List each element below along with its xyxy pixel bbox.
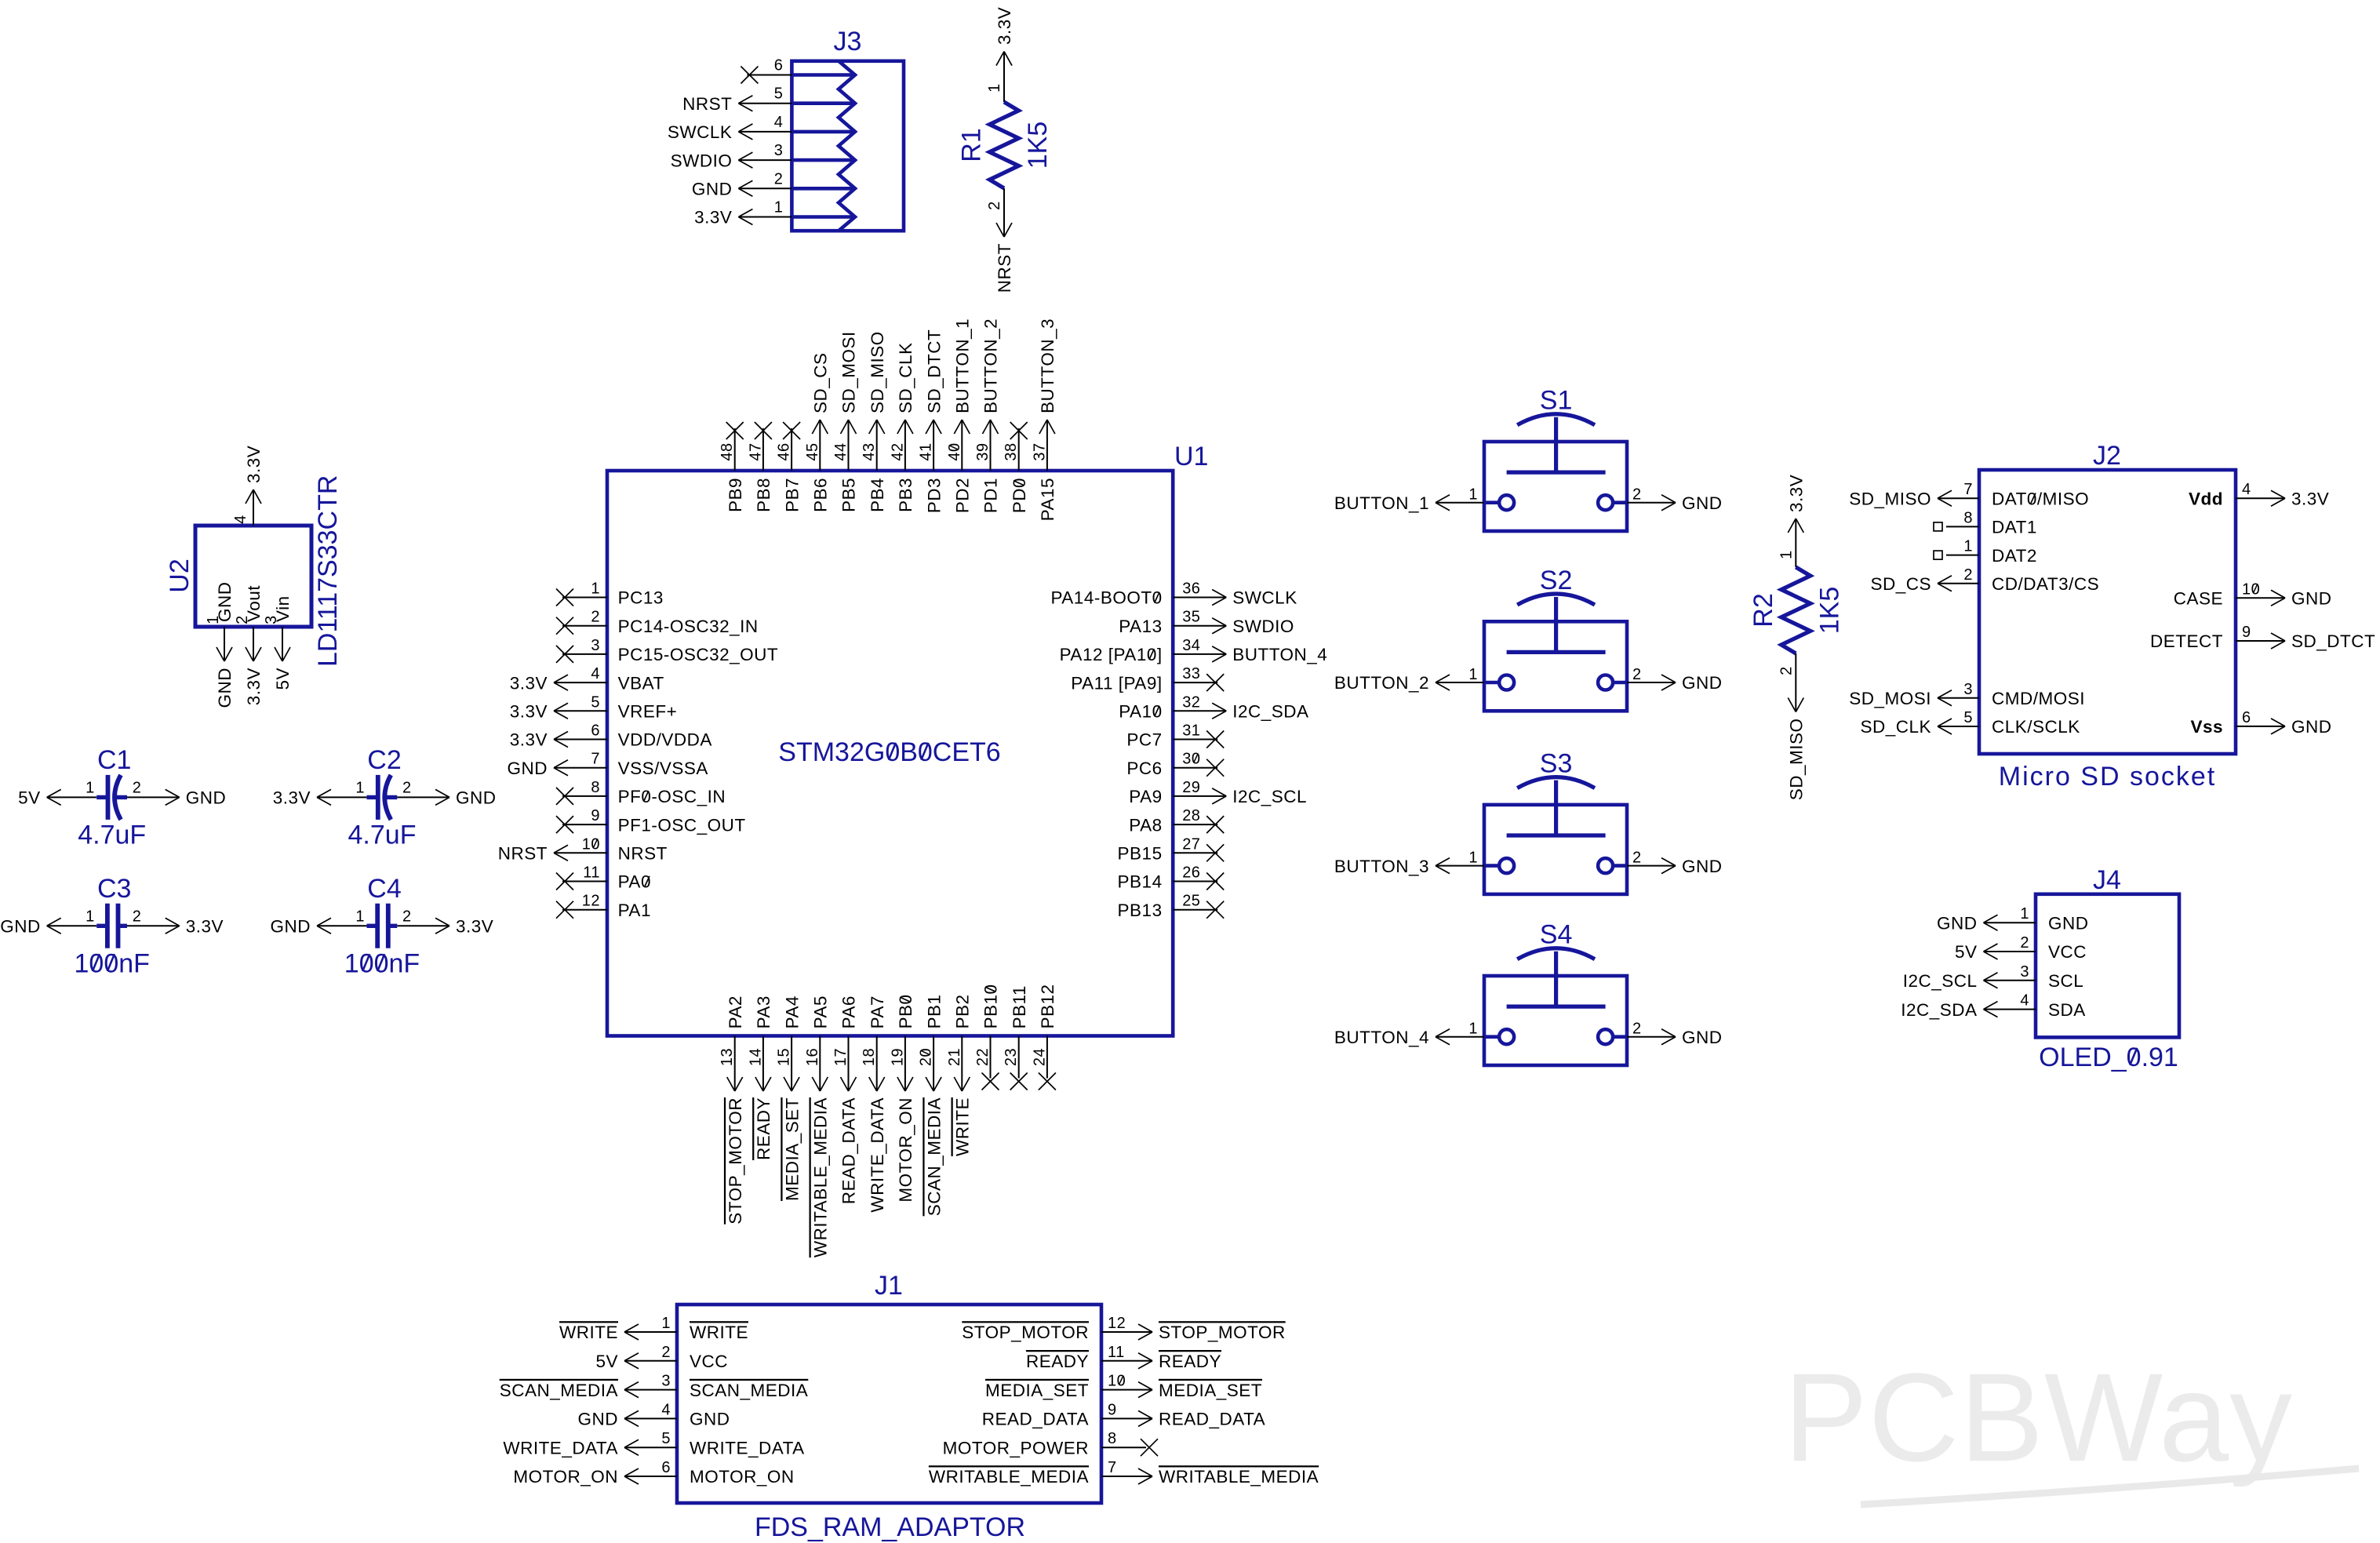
svg-text:GND: GND bbox=[508, 759, 548, 778]
svg-text:SD_DTCT: SD_DTCT bbox=[2291, 631, 2375, 651]
svg-text:1K5: 1K5 bbox=[1023, 122, 1053, 169]
svg-text:2: 2 bbox=[402, 779, 412, 796]
svg-text:BUTTON_2: BUTTON_2 bbox=[1334, 673, 1429, 693]
svg-text:PB10: PB10 bbox=[981, 984, 1001, 1028]
svg-text:WRITE_DATA: WRITE_DATA bbox=[690, 1438, 805, 1457]
svg-text:PA2: PA2 bbox=[726, 995, 745, 1028]
svg-text:5: 5 bbox=[591, 693, 600, 711]
svg-text:1: 1 bbox=[986, 83, 1003, 93]
svg-text:MOTOR_ON: MOTOR_ON bbox=[690, 1467, 795, 1487]
svg-text:1: 1 bbox=[1468, 486, 1478, 504]
svg-text:S1: S1 bbox=[1540, 386, 1573, 416]
svg-text:PC15-OSC32_OUT: PC15-OSC32_OUT bbox=[618, 645, 779, 664]
svg-text:PB14: PB14 bbox=[1118, 872, 1163, 892]
svg-text:BUTTON_2: BUTTON_2 bbox=[981, 318, 1001, 413]
svg-text:Micro SD socket: Micro SD socket bbox=[1999, 762, 2217, 792]
svg-text:14: 14 bbox=[747, 1048, 764, 1066]
svg-text:5V: 5V bbox=[1955, 942, 1978, 962]
svg-text:1: 1 bbox=[591, 580, 600, 598]
svg-text:PD3: PD3 bbox=[924, 478, 944, 513]
svg-text:R2: R2 bbox=[1749, 593, 1778, 627]
svg-text:SCAN_MEDIA: SCAN_MEDIA bbox=[924, 1097, 944, 1216]
svg-text:READY: READY bbox=[1026, 1352, 1089, 1371]
svg-text:3: 3 bbox=[774, 142, 784, 159]
svg-text:MOTOR_POWER: MOTOR_POWER bbox=[943, 1438, 1089, 1457]
svg-text:GND: GND bbox=[1682, 493, 1723, 513]
svg-text:VCC: VCC bbox=[2048, 942, 2087, 962]
svg-text:PD1: PD1 bbox=[981, 478, 1001, 513]
svg-text:4.7uF: 4.7uF bbox=[78, 820, 146, 850]
svg-text:SWCLK: SWCLK bbox=[668, 122, 733, 142]
svg-text:2: 2 bbox=[1632, 486, 1642, 504]
svg-text:VCC: VCC bbox=[690, 1352, 728, 1371]
svg-text:41: 41 bbox=[918, 442, 935, 460]
svg-text:3.3V: 3.3V bbox=[995, 7, 1014, 45]
svg-text:17: 17 bbox=[832, 1048, 850, 1066]
svg-text:SD_CS: SD_CS bbox=[1870, 574, 1931, 594]
svg-text:GND: GND bbox=[692, 180, 733, 199]
svg-text:PB11: PB11 bbox=[1010, 985, 1029, 1028]
svg-text:SD_DTCT: SD_DTCT bbox=[924, 329, 944, 413]
svg-text:PB12: PB12 bbox=[1038, 984, 1057, 1028]
svg-text:PA10: PA10 bbox=[1119, 702, 1162, 722]
svg-text:MEDIA_SET: MEDIA_SET bbox=[782, 1097, 802, 1201]
svg-text:SD_MOSI: SD_MOSI bbox=[1849, 689, 1931, 708]
svg-text:4: 4 bbox=[232, 515, 249, 524]
svg-text:3.3V: 3.3V bbox=[694, 208, 732, 227]
svg-text:PC6: PC6 bbox=[1126, 759, 1162, 778]
svg-text:2: 2 bbox=[1632, 1021, 1642, 1038]
svg-text:Vout: Vout bbox=[244, 585, 264, 622]
svg-text:Vss: Vss bbox=[2190, 717, 2223, 737]
svg-text:PA1: PA1 bbox=[618, 901, 651, 920]
svg-text:2: 2 bbox=[1632, 850, 1642, 867]
svg-text:46: 46 bbox=[776, 442, 793, 460]
svg-text:WRITE_DATA: WRITE_DATA bbox=[503, 1438, 618, 1457]
svg-text:PB15: PB15 bbox=[1118, 844, 1163, 864]
svg-text:NRST: NRST bbox=[498, 844, 548, 864]
svg-text:1K5: 1K5 bbox=[1814, 587, 1844, 635]
svg-text:S3: S3 bbox=[1540, 749, 1573, 779]
svg-text:WRITABLE_MEDIA: WRITABLE_MEDIA bbox=[811, 1097, 831, 1257]
svg-text:PA3: PA3 bbox=[754, 995, 773, 1028]
svg-text:SD_MISO: SD_MISO bbox=[868, 331, 887, 413]
svg-text:2: 2 bbox=[591, 609, 600, 626]
svg-text:PC13: PC13 bbox=[618, 588, 664, 608]
svg-text:GND: GND bbox=[456, 788, 497, 808]
svg-text:33: 33 bbox=[1182, 665, 1200, 682]
svg-text:BUTTON_1: BUTTON_1 bbox=[1334, 493, 1429, 513]
svg-text:U1: U1 bbox=[1174, 442, 1208, 471]
svg-text:PA15: PA15 bbox=[1038, 478, 1057, 521]
svg-text:R1: R1 bbox=[957, 128, 987, 162]
svg-text:3: 3 bbox=[591, 637, 600, 654]
svg-text:READY: READY bbox=[1159, 1352, 1221, 1371]
svg-text:PF1-OSC_OUT: PF1-OSC_OUT bbox=[618, 815, 746, 835]
svg-text:READ_DATA: READ_DATA bbox=[1159, 1410, 1265, 1429]
svg-text:NRST: NRST bbox=[995, 243, 1014, 293]
svg-text:2: 2 bbox=[661, 1344, 671, 1361]
svg-text:37: 37 bbox=[1031, 442, 1048, 460]
svg-text:Vdd: Vdd bbox=[2189, 489, 2223, 508]
svg-text:34: 34 bbox=[1182, 637, 1200, 654]
svg-text:6: 6 bbox=[591, 722, 600, 740]
svg-text:PB1: PB1 bbox=[924, 994, 944, 1028]
svg-text:13: 13 bbox=[719, 1048, 736, 1066]
svg-text:GND: GND bbox=[578, 1410, 619, 1429]
svg-text:3: 3 bbox=[2020, 963, 2029, 981]
svg-text:PA12 [PA10]: PA12 [PA10] bbox=[1060, 645, 1163, 664]
svg-text:2: 2 bbox=[1632, 666, 1642, 683]
svg-text:PB7: PB7 bbox=[782, 478, 802, 512]
svg-text:12: 12 bbox=[1108, 1315, 1126, 1332]
svg-text:20: 20 bbox=[918, 1048, 935, 1066]
svg-text:2: 2 bbox=[986, 201, 1003, 210]
svg-text:2: 2 bbox=[402, 908, 412, 925]
svg-text:SD_CS: SD_CS bbox=[811, 352, 831, 413]
svg-text:15: 15 bbox=[776, 1048, 793, 1066]
svg-text:1: 1 bbox=[661, 1315, 671, 1332]
svg-text:OLED_0.91: OLED_0.91 bbox=[2039, 1043, 2178, 1072]
svg-text:WRITABLE_MEDIA: WRITABLE_MEDIA bbox=[1159, 1467, 1319, 1487]
svg-text:PB4: PB4 bbox=[868, 478, 887, 512]
svg-text:MEDIA_SET: MEDIA_SET bbox=[1159, 1381, 1262, 1400]
svg-text:25: 25 bbox=[1182, 893, 1200, 910]
svg-text:43: 43 bbox=[861, 442, 878, 460]
svg-text:S4: S4 bbox=[1540, 920, 1573, 950]
svg-text:MEDIA_SET: MEDIA_SET bbox=[985, 1381, 1089, 1400]
svg-text:3: 3 bbox=[1963, 681, 1973, 698]
svg-text:1: 1 bbox=[86, 908, 95, 925]
svg-text:CD/DAT3/CS: CD/DAT3/CS bbox=[1992, 574, 2099, 594]
svg-text:SD_MISO: SD_MISO bbox=[1787, 719, 1807, 801]
svg-text:SD_MISO: SD_MISO bbox=[1849, 489, 1931, 508]
svg-text:READY: READY bbox=[754, 1097, 773, 1160]
svg-text:3.3V: 3.3V bbox=[244, 446, 264, 483]
svg-text:NRST: NRST bbox=[618, 844, 668, 864]
svg-text:31: 31 bbox=[1182, 722, 1200, 740]
svg-text:SDA: SDA bbox=[2048, 1000, 2086, 1020]
svg-text:I2C_SDA: I2C_SDA bbox=[1901, 1000, 1977, 1020]
svg-text:3: 3 bbox=[661, 1373, 671, 1390]
svg-text:36: 36 bbox=[1182, 580, 1200, 598]
svg-text:8: 8 bbox=[1108, 1430, 1117, 1447]
svg-text:J3: J3 bbox=[834, 27, 862, 56]
svg-text:GND: GND bbox=[1682, 857, 1723, 876]
svg-text:C1: C1 bbox=[97, 745, 131, 775]
svg-text:SD_MOSI: SD_MOSI bbox=[839, 331, 859, 413]
svg-text:44: 44 bbox=[832, 442, 850, 460]
svg-text:SWCLK: SWCLK bbox=[1232, 588, 1297, 608]
svg-text:I2C_SCL: I2C_SCL bbox=[1903, 971, 1978, 991]
svg-text:2: 2 bbox=[1778, 666, 1795, 675]
svg-text:5V: 5V bbox=[18, 788, 41, 808]
svg-text:2: 2 bbox=[133, 779, 142, 796]
svg-text:CASE: CASE bbox=[2174, 589, 2223, 609]
svg-text:5: 5 bbox=[774, 86, 784, 103]
svg-text:GND: GND bbox=[271, 917, 311, 937]
svg-text:S2: S2 bbox=[1540, 566, 1573, 595]
svg-text:VSS/VSSA: VSS/VSSA bbox=[618, 759, 708, 778]
svg-text:BUTTON_1: BUTTON_1 bbox=[953, 318, 973, 413]
svg-text:3.3V: 3.3V bbox=[1787, 475, 1807, 512]
svg-text:PA11 [PA9]: PA11 [PA9] bbox=[1071, 673, 1162, 693]
svg-text:SCL: SCL bbox=[2048, 971, 2083, 991]
svg-text:GND: GND bbox=[215, 668, 235, 708]
svg-text:4.7uF: 4.7uF bbox=[348, 820, 417, 850]
svg-text:35: 35 bbox=[1182, 609, 1200, 626]
svg-text:9: 9 bbox=[2242, 624, 2251, 641]
svg-text:BUTTON_4: BUTTON_4 bbox=[1232, 645, 1327, 664]
svg-text:8: 8 bbox=[591, 779, 600, 796]
svg-text:24: 24 bbox=[1031, 1048, 1048, 1066]
svg-text:SD_CLK: SD_CLK bbox=[1860, 717, 1931, 737]
svg-text:READ_DATA: READ_DATA bbox=[839, 1097, 859, 1204]
svg-text:PF0-OSC_IN: PF0-OSC_IN bbox=[618, 787, 726, 806]
svg-text:WRITE: WRITE bbox=[690, 1323, 748, 1342]
svg-text:40: 40 bbox=[946, 442, 963, 460]
svg-text:29: 29 bbox=[1182, 779, 1200, 796]
svg-text:2: 2 bbox=[774, 170, 784, 187]
svg-text:PB3: PB3 bbox=[896, 478, 915, 512]
svg-text:PA4: PA4 bbox=[782, 995, 802, 1028]
svg-text:C3: C3 bbox=[97, 874, 131, 904]
svg-text:PA7: PA7 bbox=[868, 995, 887, 1028]
svg-text:PA13: PA13 bbox=[1119, 617, 1162, 636]
svg-text:SD_CLK: SD_CLK bbox=[896, 342, 915, 413]
svg-text:GND: GND bbox=[1682, 673, 1723, 693]
svg-text:DAT1: DAT1 bbox=[1992, 518, 2037, 537]
svg-text:GND: GND bbox=[690, 1410, 730, 1429]
svg-text:GND: GND bbox=[2291, 589, 2332, 609]
svg-text:J2: J2 bbox=[2093, 441, 2121, 471]
svg-text:4: 4 bbox=[2242, 481, 2251, 498]
svg-text:1: 1 bbox=[2020, 905, 2029, 923]
svg-text:1: 1 bbox=[1468, 666, 1478, 683]
svg-text:PB5: PB5 bbox=[839, 478, 859, 512]
svg-text:5V: 5V bbox=[595, 1352, 618, 1371]
svg-text:23: 23 bbox=[1003, 1048, 1020, 1066]
svg-text:3.3V: 3.3V bbox=[510, 702, 548, 722]
svg-text:1: 1 bbox=[1468, 1021, 1478, 1038]
svg-text:8: 8 bbox=[1963, 509, 1973, 526]
svg-text:3.3V: 3.3V bbox=[456, 917, 493, 937]
svg-text:WRITE: WRITE bbox=[953, 1097, 973, 1156]
svg-text:DAT2: DAT2 bbox=[1992, 546, 2037, 566]
svg-text:5V: 5V bbox=[273, 668, 293, 690]
svg-text:LD1117S33CTR: LD1117S33CTR bbox=[313, 475, 343, 667]
svg-text:4: 4 bbox=[774, 114, 784, 131]
svg-text:1: 1 bbox=[86, 779, 95, 796]
svg-text:5: 5 bbox=[1963, 709, 1973, 726]
svg-text:5: 5 bbox=[661, 1430, 671, 1447]
svg-text:10: 10 bbox=[1108, 1373, 1126, 1390]
svg-text:VDD/VDDA: VDD/VDDA bbox=[618, 730, 712, 750]
svg-text:2: 2 bbox=[1963, 566, 1973, 584]
svg-text:PB9: PB9 bbox=[726, 478, 745, 512]
svg-text:4: 4 bbox=[591, 665, 600, 682]
svg-text:28: 28 bbox=[1182, 807, 1200, 824]
svg-text:10: 10 bbox=[582, 835, 600, 853]
svg-text:MOTOR_ON: MOTOR_ON bbox=[896, 1097, 915, 1203]
svg-text:PCBWay: PCBWay bbox=[1784, 1347, 2293, 1487]
svg-text:6: 6 bbox=[774, 57, 784, 75]
svg-text:PB8: PB8 bbox=[754, 478, 773, 512]
svg-text:3.3V: 3.3V bbox=[510, 730, 548, 750]
svg-text:PC14-OSC32_IN: PC14-OSC32_IN bbox=[618, 617, 759, 636]
svg-text:STOP_MOTOR: STOP_MOTOR bbox=[726, 1097, 745, 1225]
svg-text:3.3V: 3.3V bbox=[186, 917, 224, 937]
svg-text:1: 1 bbox=[355, 779, 365, 796]
svg-text:18: 18 bbox=[861, 1048, 878, 1066]
svg-text:7: 7 bbox=[1108, 1459, 1117, 1476]
svg-text:PA0: PA0 bbox=[618, 872, 651, 892]
svg-text:2: 2 bbox=[2020, 934, 2029, 952]
svg-text:11: 11 bbox=[583, 864, 600, 882]
svg-text:C4: C4 bbox=[367, 874, 401, 904]
svg-text:7: 7 bbox=[591, 751, 600, 768]
svg-text:WRITE: WRITE bbox=[559, 1323, 618, 1342]
svg-text:9: 9 bbox=[1108, 1401, 1117, 1418]
svg-text:3.3V: 3.3V bbox=[510, 673, 548, 693]
svg-text:32: 32 bbox=[1182, 693, 1200, 711]
svg-text:I2C_SDA: I2C_SDA bbox=[1232, 702, 1308, 722]
svg-text:30: 30 bbox=[1182, 751, 1200, 768]
svg-text:27: 27 bbox=[1182, 835, 1200, 853]
svg-text:BUTTON_4: BUTTON_4 bbox=[1334, 1028, 1429, 1047]
svg-text:4: 4 bbox=[2020, 992, 2029, 1010]
svg-text:WRITABLE_MEDIA: WRITABLE_MEDIA bbox=[929, 1467, 1089, 1487]
svg-text:GND: GND bbox=[1682, 1028, 1723, 1047]
svg-text:48: 48 bbox=[719, 442, 736, 460]
svg-text:BUTTON_3: BUTTON_3 bbox=[1038, 318, 1057, 413]
svg-text:100nF: 100nF bbox=[74, 948, 149, 978]
svg-text:SWDIO: SWDIO bbox=[1232, 617, 1294, 636]
svg-text:SWDIO: SWDIO bbox=[671, 151, 733, 170]
svg-text:GND: GND bbox=[2291, 717, 2332, 737]
svg-text:GND: GND bbox=[1937, 913, 1978, 933]
svg-text:C2: C2 bbox=[367, 745, 401, 775]
svg-text:READ_DATA: READ_DATA bbox=[982, 1410, 1089, 1429]
svg-text:GND: GND bbox=[2048, 913, 2089, 933]
svg-text:47: 47 bbox=[747, 442, 764, 460]
svg-text:3.3V: 3.3V bbox=[2291, 489, 2329, 508]
svg-text:1: 1 bbox=[1963, 538, 1973, 555]
svg-text:Vin: Vin bbox=[273, 595, 293, 622]
svg-text:U2: U2 bbox=[165, 559, 195, 592]
svg-text:3.3V: 3.3V bbox=[244, 668, 264, 705]
svg-text:CLK/SCLK: CLK/SCLK bbox=[1992, 717, 2080, 737]
svg-text:9: 9 bbox=[591, 807, 600, 824]
svg-text:19: 19 bbox=[889, 1048, 906, 1066]
svg-text:4: 4 bbox=[661, 1401, 671, 1418]
svg-text:SCAN_MEDIA: SCAN_MEDIA bbox=[500, 1381, 618, 1400]
svg-text:GND: GND bbox=[0, 917, 41, 937]
svg-text:I2C_SCL: I2C_SCL bbox=[1232, 787, 1307, 806]
svg-text:38: 38 bbox=[1003, 442, 1020, 460]
svg-text:PB6: PB6 bbox=[811, 478, 831, 512]
svg-text:BUTTON_3: BUTTON_3 bbox=[1334, 857, 1429, 876]
svg-text:PC7: PC7 bbox=[1126, 730, 1162, 750]
svg-text:PA5: PA5 bbox=[811, 995, 831, 1028]
svg-text:DETECT: DETECT bbox=[2150, 631, 2223, 651]
svg-text:MOTOR_ON: MOTOR_ON bbox=[513, 1467, 618, 1487]
svg-text:SCAN_MEDIA: SCAN_MEDIA bbox=[690, 1381, 808, 1400]
svg-text:42: 42 bbox=[889, 442, 906, 460]
svg-text:1: 1 bbox=[355, 908, 365, 925]
svg-text:3.3V: 3.3V bbox=[273, 788, 311, 808]
svg-text:45: 45 bbox=[804, 442, 821, 460]
svg-text:DAT0/MISO: DAT0/MISO bbox=[1992, 489, 2089, 508]
svg-text:1: 1 bbox=[1468, 850, 1478, 867]
svg-text:J1: J1 bbox=[875, 1271, 903, 1301]
svg-text:26: 26 bbox=[1182, 864, 1200, 882]
svg-text:CMD/MOSI: CMD/MOSI bbox=[1992, 689, 2085, 708]
svg-text:22: 22 bbox=[974, 1048, 992, 1066]
svg-text:10: 10 bbox=[2242, 580, 2260, 598]
svg-text:2: 2 bbox=[133, 908, 142, 925]
svg-text:GND: GND bbox=[215, 582, 235, 623]
svg-text:VREF+: VREF+ bbox=[618, 702, 678, 722]
svg-text:PD2: PD2 bbox=[953, 478, 973, 513]
svg-text:PA6: PA6 bbox=[839, 995, 859, 1028]
svg-text:6: 6 bbox=[2242, 709, 2251, 726]
svg-text:12: 12 bbox=[582, 893, 600, 910]
svg-text:WRITE_DATA: WRITE_DATA bbox=[868, 1097, 887, 1213]
svg-text:PA14-BOOT0: PA14-BOOT0 bbox=[1050, 588, 1162, 608]
svg-text:6: 6 bbox=[661, 1459, 671, 1476]
svg-text:1: 1 bbox=[1778, 550, 1795, 559]
svg-text:NRST: NRST bbox=[682, 94, 732, 114]
svg-text:VBAT: VBAT bbox=[618, 673, 664, 693]
svg-text:11: 11 bbox=[1108, 1344, 1125, 1361]
svg-text:FDS_RAM_ADAPTOR: FDS_RAM_ADAPTOR bbox=[755, 1512, 1025, 1542]
svg-text:STOP_MOTOR: STOP_MOTOR bbox=[962, 1323, 1089, 1342]
svg-text:16: 16 bbox=[804, 1048, 821, 1066]
svg-text:39: 39 bbox=[974, 442, 992, 460]
svg-text:GND: GND bbox=[186, 788, 227, 808]
svg-text:21: 21 bbox=[946, 1048, 963, 1066]
svg-text:PA8: PA8 bbox=[1129, 815, 1162, 835]
svg-text:J4: J4 bbox=[2093, 865, 2121, 895]
svg-text:PA9: PA9 bbox=[1129, 787, 1162, 806]
svg-text:7: 7 bbox=[1963, 481, 1973, 498]
svg-text:1: 1 bbox=[774, 199, 784, 217]
svg-text:STOP_MOTOR: STOP_MOTOR bbox=[1159, 1323, 1286, 1342]
svg-text:PB2: PB2 bbox=[953, 994, 973, 1028]
svg-text:100nF: 100nF bbox=[344, 948, 420, 978]
svg-text:PB13: PB13 bbox=[1118, 901, 1163, 920]
svg-text:STM32G0B0CET6: STM32G0B0CET6 bbox=[778, 737, 1000, 767]
